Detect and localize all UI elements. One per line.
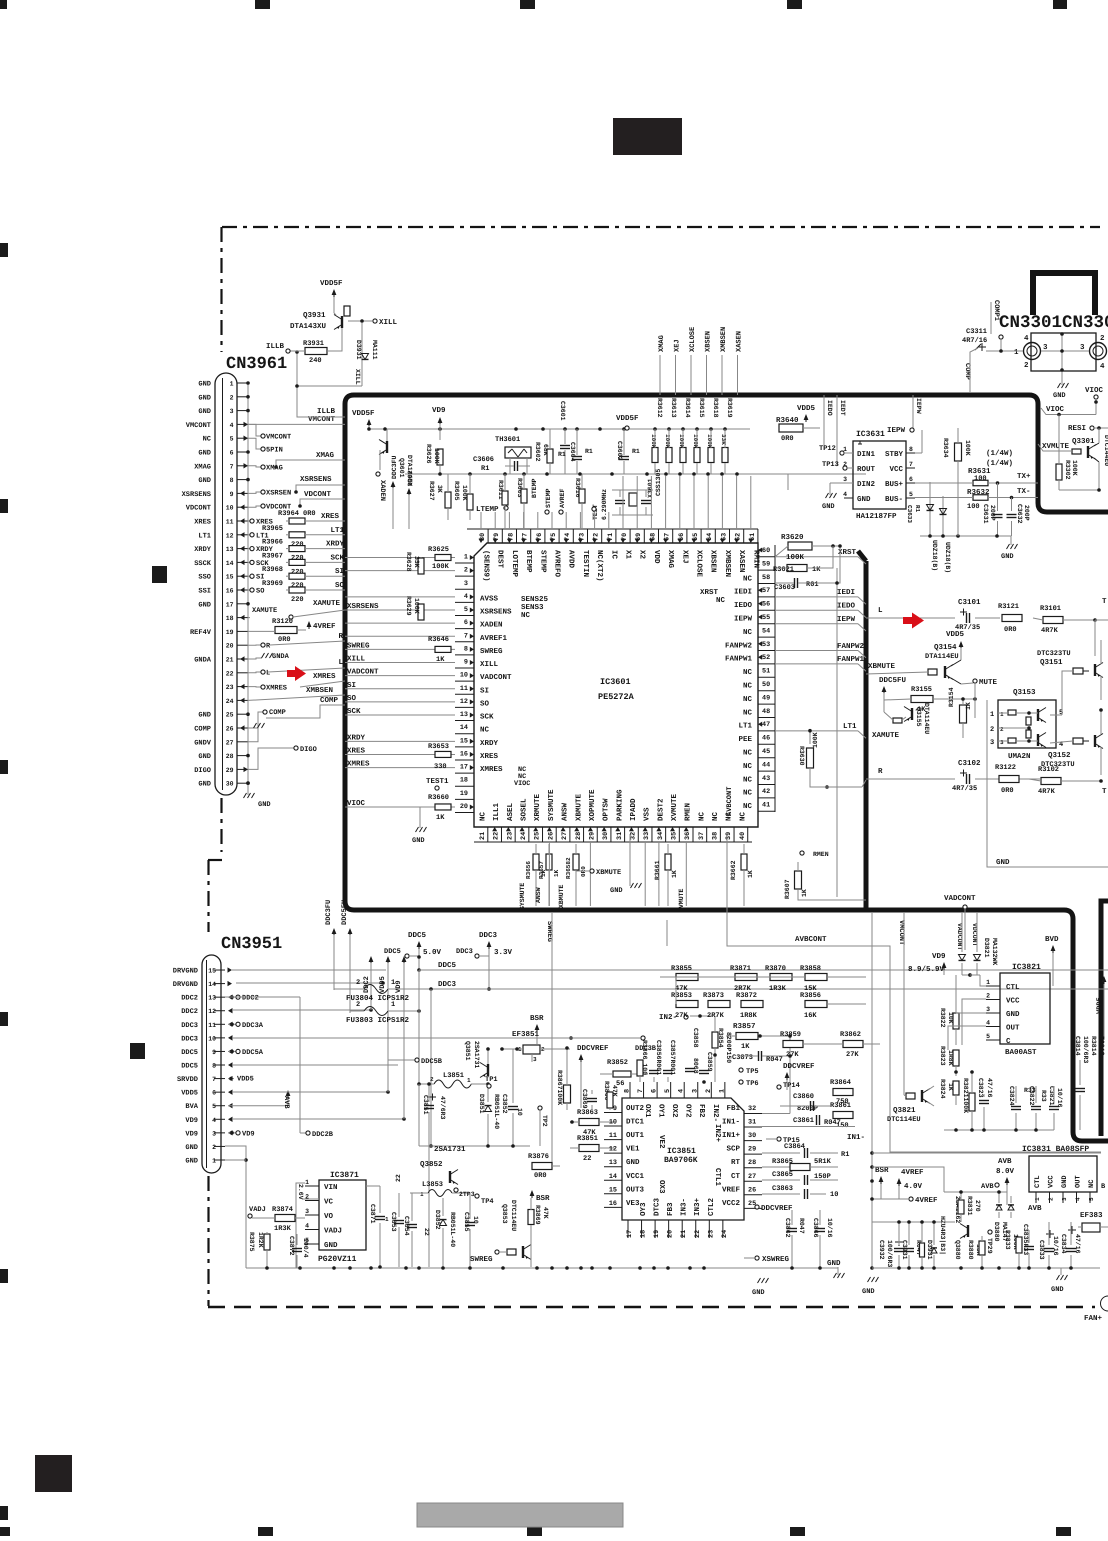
- svg-text:NC: NC: [738, 811, 747, 821]
- svg-text:GND: GND: [1053, 392, 1066, 400]
- wires CN3961 nets to IC3601 left pins: [345, 557, 455, 559]
- test point TP1: [487, 1084, 491, 1088]
- svg-text:5.0V: 5.0V: [423, 948, 442, 957]
- CN3961 pin 16 input arrow: [240, 587, 245, 592]
- svg-text:R3873: R3873: [703, 992, 724, 1000]
- svg-text:28: 28: [575, 832, 583, 840]
- svg-text:47/6R3: 47/6R3: [439, 1096, 446, 1120]
- svg-text:AVREF: AVREF: [559, 488, 566, 508]
- svg-text:STEMP: STEMP: [538, 550, 547, 573]
- svg-text:(1/4W): (1/4W): [986, 459, 1013, 468]
- svg-text:1R3K: 1R3K: [274, 1225, 292, 1233]
- svg-text:R3856: R3856: [800, 992, 821, 1000]
- svg-text:AVREF1: AVREF1: [480, 635, 508, 643]
- svg-text:SO: SO: [335, 581, 345, 590]
- svg-text:LT1: LT1: [738, 723, 752, 731]
- red arrow marker L: [287, 666, 306, 681]
- svg-text:NC(XT2): NC(XT2): [595, 550, 604, 582]
- svg-text:31: 31: [616, 832, 624, 840]
- wire DDC3 vertical: [430, 989, 432, 1146]
- IC3601 top pin numbers and stubs: [467, 528, 758, 530]
- svg-text:IEPW: IEPW: [887, 427, 906, 435]
- svg-text:53: 53: [762, 641, 770, 649]
- svg-text:29: 29: [588, 832, 596, 840]
- svg-text:IC3821: IC3821: [1012, 963, 1041, 972]
- node DDC3A stub: [228, 1023, 236, 1025]
- svg-text:SWREG: SWREG: [480, 647, 503, 656]
- svg-text:10: 10: [830, 1191, 838, 1199]
- svg-text:6: 6: [212, 1090, 216, 1097]
- svg-text:15: 15: [609, 1186, 617, 1194]
- svg-text:XSRSENS: XSRSENS: [300, 475, 332, 484]
- svg-text:12: 12: [208, 1008, 216, 1015]
- svg-text:VC: VC: [324, 1198, 334, 1207]
- svg-text:R1: R1: [914, 505, 921, 513]
- svg-text:VDD5: VDD5: [946, 631, 965, 639]
- svg-text:NC: NC: [743, 802, 753, 811]
- svg-text:57: 57: [762, 587, 770, 595]
- svg-text:R3857: R3857: [733, 1022, 756, 1031]
- svg-text:OX2: OX2: [670, 1104, 679, 1118]
- svg-text:VCC: VCC: [1006, 997, 1020, 1006]
- node SI stub: [248, 575, 250, 577]
- svg-text:C3872: C3872: [288, 1236, 295, 1256]
- svg-text:2: 2: [990, 726, 994, 734]
- svg-text:OY3: OY3: [639, 1202, 648, 1216]
- svg-text:TEST1: TEST1: [426, 777, 449, 786]
- svg-text:VE2: VE2: [657, 1135, 666, 1149]
- svg-text:C3823: C3823: [977, 1078, 984, 1098]
- svg-text:XBMUTE: XBMUTE: [596, 869, 621, 877]
- CN3951 pin 12 input arrow: [228, 1008, 233, 1013]
- wire XBMUTE from bus: [866, 672, 928, 674]
- svg-text:Q3880: Q3880: [954, 1240, 961, 1260]
- svg-text:XVMUTE: XVMUTE: [678, 888, 685, 912]
- svg-text:8: 8: [909, 446, 913, 453]
- svg-text:1: 1: [385, 1216, 389, 1223]
- svg-text:11: 11: [609, 1132, 617, 1140]
- gnd net box around Q3153: [987, 700, 1108, 867]
- svg-text:R01: R01: [806, 581, 819, 589]
- svg-text:R3823: R3823: [939, 1046, 946, 1066]
- svg-text:CTL1: CTL1: [713, 1168, 722, 1187]
- node DDC5A stub: [228, 1050, 236, 1052]
- svg-text:VADCONT: VADCONT: [480, 673, 512, 682]
- resistor R3646 1K: [435, 646, 451, 652]
- svg-text:R1: R1: [841, 1151, 849, 1159]
- svg-text:OUT: OUT: [1006, 1024, 1020, 1033]
- svg-text:1K: 1K: [671, 870, 678, 878]
- CN3961 pin 26 input arrow: [240, 725, 245, 730]
- svg-text:VMCONT: VMCONT: [266, 434, 291, 442]
- svg-text:XMRES: XMRES: [480, 765, 503, 774]
- svg-text:17: 17: [460, 764, 468, 772]
- test point TP2: [538, 1106, 542, 1110]
- svg-text:C3861: C3861: [793, 1117, 814, 1125]
- svg-text:AVB: AVB: [998, 1158, 1012, 1166]
- svg-text:0R0: 0R0: [303, 510, 316, 518]
- wire XMAG to block: [276, 460, 345, 467]
- svg-text:GND: GND: [822, 503, 835, 511]
- svg-text:TX+: TX+: [1017, 473, 1031, 481]
- svg-text:XVMUTE: XVMUTE: [671, 793, 679, 821]
- svg-text:SCK: SCK: [480, 713, 494, 722]
- svg-text:1: 1: [391, 979, 395, 987]
- test point TP14: [777, 1085, 781, 1089]
- svg-text:LOTEMP: LOTEMP: [510, 550, 519, 578]
- svg-text:TP2: TP2: [541, 1115, 548, 1127]
- svg-text:48: 48: [762, 708, 770, 716]
- svg-text:VDD: VDD: [652, 550, 660, 564]
- svg-text:9: 9: [230, 491, 234, 498]
- svg-text:1K: 1K: [747, 870, 754, 878]
- svg-text:R3302: R3302: [1064, 460, 1071, 480]
- black title block: [613, 118, 682, 155]
- svg-text:R3102: R3102: [1038, 766, 1059, 774]
- svg-text:XBMUTE: XBMUTE: [575, 793, 583, 821]
- svg-text:C3604: C3604: [569, 442, 576, 462]
- svg-text:C3101: C3101: [958, 598, 981, 607]
- svg-text:GND: GND: [412, 837, 425, 845]
- svg-text:R3657: R3657: [538, 861, 545, 879]
- IC3601 bottom pin numbers and stubs: [474, 841, 752, 843]
- svg-text:ASEL: ASEL: [506, 802, 515, 821]
- svg-text:1: 1: [391, 1001, 395, 1009]
- svg-text:DDC3: DDC3: [181, 1022, 198, 1030]
- svg-text:1K: 1K: [965, 702, 972, 710]
- svg-text:R3613: R3613: [670, 398, 677, 418]
- svg-text:FB3: FB3: [666, 1202, 675, 1216]
- capacitor C3865 150P: [762, 1179, 800, 1181]
- svg-text:ANSW: ANSW: [561, 802, 570, 821]
- svg-text:XADEN: XADEN: [480, 622, 503, 630]
- CN3951 pin 10 input arrow: [228, 1035, 233, 1040]
- bottom right rail: [872, 1267, 1100, 1269]
- svg-text:DDC3: DDC3: [456, 948, 473, 956]
- svg-text:17: 17: [626, 1230, 634, 1238]
- IC3601 right pin numbers and stubs: [774, 545, 776, 812]
- svg-text:XMBSEN: XMBSEN: [306, 686, 333, 695]
- svg-text:L: L: [878, 607, 883, 615]
- ground TX filter: [920, 535, 1011, 537]
- svg-text:Q3601: Q3601: [398, 458, 405, 478]
- svg-text:50: 50: [762, 681, 770, 689]
- test point TP3: [454, 1188, 458, 1192]
- svg-text:1R8K: 1R8K: [740, 1012, 758, 1020]
- svg-text:XCLOSE: XCLOSE: [695, 550, 704, 578]
- capacitor C3873 R047: [758, 1051, 760, 1061]
- svg-text:0R0: 0R0: [278, 636, 291, 644]
- svg-text:R: R: [878, 768, 883, 776]
- svg-text:6: 6: [464, 619, 468, 627]
- svg-text:SO: SO: [347, 694, 357, 703]
- svg-text:R3964: R3964: [278, 510, 299, 518]
- wires resistor rows: [675, 977, 677, 1004]
- svg-text:FB2: FB2: [697, 1104, 706, 1118]
- svg-text:BA00AST: BA00AST: [1005, 1048, 1037, 1057]
- svg-text:IEDO: IEDO: [734, 601, 753, 610]
- svg-text:OY2: OY2: [684, 1104, 693, 1118]
- svg-text:NC: NC: [743, 775, 753, 784]
- svg-text:XRDY: XRDY: [194, 546, 212, 554]
- diode D3931 MA111 vertical: [361, 323, 363, 386]
- svg-text:C3814: C3814: [1074, 1036, 1081, 1056]
- svg-text:REF4V: REF4V: [190, 629, 212, 637]
- svg-text:1: 1: [990, 711, 994, 719]
- svg-text:R1: R1: [481, 465, 489, 473]
- svg-text:24: 24: [721, 1230, 729, 1238]
- svg-text:26: 26: [748, 1186, 756, 1194]
- transistor Q3931 DTA143XU: [341, 316, 343, 328]
- svg-text:RMEN: RMEN: [685, 803, 693, 821]
- svg-text:Q3151: Q3151: [1040, 658, 1063, 667]
- node VDD5 stub pin7: [228, 1078, 234, 1080]
- svg-text:24: 24: [226, 698, 234, 705]
- svg-text:XSRSEN: XSRSEN: [266, 490, 291, 498]
- svg-text:20: 20: [460, 803, 468, 811]
- svg-text:STEMP: STEMP: [545, 488, 552, 508]
- node XMRES stub: [248, 686, 262, 688]
- svg-text:VADJ: VADJ: [324, 1228, 342, 1236]
- svg-text:0R0: 0R0: [781, 435, 794, 443]
- svg-text:TX-: TX-: [1017, 488, 1031, 496]
- svg-text:GND: GND: [198, 394, 211, 402]
- svg-text:VMCONT: VMCONT: [308, 415, 336, 424]
- svg-text:R3629: R3629: [405, 596, 412, 616]
- svg-text:GND: GND: [324, 1241, 338, 1250]
- node AVB stub: [995, 1183, 999, 1187]
- wire COMP vertical: [266, 705, 345, 718]
- svg-text:AVSS: AVSS: [480, 594, 499, 603]
- svg-text:XOPMUTE: XOPMUTE: [588, 789, 597, 821]
- svg-text:8200P150: 8200P150: [725, 1032, 732, 1063]
- svg-text:TP14: TP14: [783, 1082, 800, 1090]
- svg-text:EF383: EF383: [1080, 1211, 1103, 1220]
- svg-text:26: 26: [226, 726, 234, 733]
- dash-dot page border top: [222, 226, 1100, 228]
- svg-text:27: 27: [226, 739, 234, 746]
- svg-text:100/6R3: 100/6R3: [886, 1240, 893, 1267]
- svg-text:15: 15: [208, 968, 216, 975]
- svg-text:VDD5: VDD5: [237, 1076, 254, 1084]
- svg-text:43: 43: [762, 775, 770, 783]
- node SO stub: [248, 589, 250, 591]
- svg-text:XRDY: XRDY: [347, 734, 366, 742]
- svg-text:60: 60: [762, 547, 770, 555]
- svg-text:R3121: R3121: [998, 603, 1019, 611]
- svg-text:DDC2: DDC2: [407, 470, 414, 486]
- svg-text:Q3153: Q3153: [1013, 688, 1036, 697]
- ground at CN3961 bottom: [247, 783, 249, 795]
- svg-text:NC: NC: [743, 574, 753, 583]
- svg-text:R3969: R3969: [262, 580, 283, 588]
- svg-text:DDC5: DDC5: [384, 948, 401, 956]
- svg-text:SRVDD: SRVDD: [177, 1076, 198, 1084]
- svg-text:27K: 27K: [786, 1051, 799, 1059]
- svg-text:VDD5: VDD5: [797, 405, 816, 413]
- svg-text:R3822: R3822: [939, 1008, 946, 1028]
- svg-text:1: 1: [1000, 711, 1004, 718]
- svg-text:4: 4: [230, 422, 234, 429]
- svg-text:PE5272A: PE5272A: [598, 692, 635, 702]
- svg-text:NC: NC: [521, 611, 531, 620]
- svg-text:SCK: SCK: [347, 707, 361, 716]
- svg-text:23: 23: [506, 832, 514, 840]
- node ILLB stub: [286, 349, 290, 353]
- svg-text:42: 42: [762, 788, 770, 796]
- svg-text:XSWREG: XSWREG: [762, 1255, 790, 1264]
- dash-dot page border left upper: [220, 227, 222, 352]
- svg-text:IN1+: IN1+: [722, 1132, 741, 1140]
- svg-text:XAMUTE: XAMUTE: [252, 607, 277, 615]
- resistor R3969 220: [289, 587, 305, 593]
- svg-text:4VREF: 4VREF: [901, 1169, 924, 1177]
- svg-text:7: 7: [464, 632, 468, 640]
- svg-text:VE1: VE1: [626, 1146, 640, 1154]
- svg-text:VADJ: VADJ: [249, 1206, 266, 1214]
- CN3961 pin 14 input arrow: [240, 560, 245, 565]
- svg-text:12: 12: [609, 1146, 617, 1154]
- svg-text:C3824: C3824: [1008, 1086, 1015, 1106]
- svg-text:51: 51: [762, 668, 770, 676]
- svg-text:VDCONT: VDCONT: [304, 490, 332, 499]
- svg-text:IN3+: IN3+: [693, 1197, 702, 1216]
- zener D3631 UDZ18(B): [929, 482, 931, 536]
- node DIGO stub: [248, 748, 294, 769]
- resistor R3660 1K: [435, 804, 451, 810]
- svg-text:24: 24: [520, 832, 528, 840]
- svg-text:R3965: R3965: [262, 525, 283, 533]
- svg-text:1K: 1K: [812, 566, 821, 574]
- node GNDA: [248, 658, 262, 659]
- svg-text:OPTSW: OPTSW: [602, 798, 611, 821]
- svg-text:SWREG: SWREG: [347, 641, 370, 650]
- svg-text:OUT2: OUT2: [626, 1104, 645, 1113]
- svg-text:ILL1: ILL1: [493, 802, 501, 821]
- CN3951 pin 5 input arrow: [228, 1103, 233, 1108]
- stray print mark B: [130, 1043, 145, 1059]
- svg-text:MUTE: MUTE: [979, 679, 998, 687]
- svg-text:ILLB: ILLB: [266, 343, 285, 351]
- svg-text:GNDA: GNDA: [194, 657, 212, 665]
- svg-text:R3628: R3628: [405, 552, 412, 572]
- svg-text:14: 14: [208, 981, 216, 988]
- adjacent block heavy corner right: [1101, 901, 1108, 910]
- svg-text:XBSEN: XBSEN: [705, 331, 713, 352]
- svg-text:XCLOSE: XCLOSE: [689, 327, 697, 352]
- svg-text:R3626: R3626: [425, 444, 432, 464]
- svg-text:R3967: R3967: [262, 552, 283, 560]
- svg-text:IPADD: IPADD: [630, 798, 638, 821]
- svg-text:R3661: R3661: [654, 860, 661, 880]
- svg-text:IEPW: IEPW: [915, 398, 922, 414]
- svg-text:DTC114EU: DTC114EU: [887, 1116, 921, 1124]
- svg-text:R3618: R3618: [712, 398, 719, 418]
- svg-text:DEST: DEST: [496, 550, 505, 569]
- svg-text:27: 27: [561, 832, 569, 840]
- svg-text:VDD5F: VDD5F: [352, 410, 375, 418]
- svg-text:CTL: CTL: [1006, 983, 1020, 992]
- svg-text:RB051L-40: RB051L-40: [449, 1212, 456, 1247]
- svg-text:100K: 100K: [692, 434, 699, 449]
- svg-text:XRES: XRES: [194, 519, 211, 527]
- svg-text:DDC5B: DDC5B: [421, 1058, 443, 1066]
- svg-text:GND: GND: [198, 477, 211, 485]
- CN3961 pin 15 input arrow: [240, 574, 245, 579]
- svg-text:C3932: C3932: [878, 1240, 885, 1260]
- svg-text:Q3821: Q3821: [893, 1106, 916, 1115]
- wires IC3601 right pins to bus: [775, 556, 858, 558]
- test point TP5: [739, 1068, 743, 1072]
- svg-text:23: 23: [226, 684, 234, 691]
- svg-text:100K: 100K: [432, 563, 450, 571]
- svg-text:XILL: XILL: [354, 369, 361, 385]
- svg-text:R3858: R3858: [800, 965, 821, 973]
- svg-text:C3603: C3603: [774, 584, 795, 592]
- svg-text:IN2+: IN2+: [713, 1124, 722, 1143]
- svg-text:D3931: D3931: [926, 1240, 933, 1260]
- wire FB1 to C3873 node: [762, 1113, 790, 1115]
- svg-text:DDC5FU: DDC5FU: [341, 900, 349, 925]
- svg-text:4VREF: 4VREF: [915, 1197, 938, 1205]
- svg-text:4: 4: [986, 1020, 990, 1027]
- svg-text:GND: GND: [198, 753, 211, 761]
- svg-text:58: 58: [762, 574, 770, 582]
- svg-text:VD9: VD9: [242, 1130, 255, 1138]
- svg-text:LT1: LT1: [198, 532, 211, 540]
- svg-text:XRES: XRES: [321, 512, 340, 521]
- svg-text:55: 55: [762, 614, 770, 622]
- svg-text:4VREF: 4VREF: [313, 623, 336, 631]
- capacitor C3632 200P: [1007, 514, 1017, 516]
- svg-text:MA111: MA111: [371, 340, 378, 360]
- svg-text:TP13: TP13: [822, 461, 839, 469]
- svg-text:14: 14: [226, 560, 234, 567]
- svg-text:33: 33: [643, 832, 651, 840]
- svg-text:Q3853: Q3853: [501, 1204, 508, 1224]
- svg-text:R3931: R3931: [303, 340, 324, 348]
- dash-dot page border left lower2: [207, 1176, 209, 1306]
- svg-text:VDD5: VDD5: [181, 1090, 198, 1098]
- svg-text:DTC323TU: DTC323TU: [1037, 650, 1071, 658]
- svg-text:XRST: XRST: [700, 588, 719, 597]
- svg-text:1: 1: [230, 381, 234, 388]
- svg-text:OUT3: OUT3: [626, 1185, 645, 1194]
- svg-text:X3601: X3601: [647, 478, 654, 498]
- capacitor C3863 10: [762, 1193, 800, 1195]
- resistor R3629 100K vertical: [418, 604, 424, 620]
- svg-text:DTA114EU: DTA114EU: [923, 703, 930, 734]
- svg-text:XAMUTE: XAMUTE: [313, 600, 341, 608]
- svg-text:R3865: R3865: [772, 1158, 793, 1166]
- svg-text:RMEN: RMEN: [813, 851, 829, 858]
- svg-text:SYSMUTE: SYSMUTE: [547, 789, 556, 821]
- svg-text:R3855: R3855: [671, 965, 692, 973]
- node 5PIN stub: [248, 438, 262, 449]
- node XRDY stub: [248, 548, 250, 550]
- svg-text:SOSEL: SOSEL: [520, 798, 529, 821]
- svg-text:R3863: R3863: [577, 1109, 598, 1117]
- svg-text:R3869: R3869: [534, 1205, 541, 1225]
- svg-text:R36582: R36582: [565, 857, 572, 879]
- svg-text:XMAG: XMAG: [316, 451, 335, 460]
- svg-text:1R3K: 1R3K: [769, 985, 787, 993]
- node MUTE: [973, 679, 977, 683]
- op-amp U IC3601 PE5272A body: [474, 543, 758, 827]
- resistor R3965 220: [289, 532, 305, 538]
- svg-text:R3607: R3607: [784, 879, 791, 899]
- svg-text:AVDD: AVDD: [567, 550, 575, 569]
